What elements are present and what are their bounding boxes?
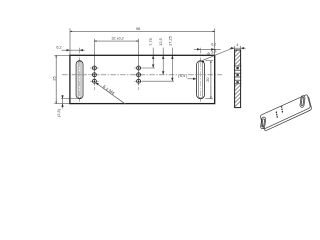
dimension 7,75 <box>148 37 154 68</box>
section strip hatch bottom <box>231 77 245 111</box>
slot right inner <box>199 61 203 98</box>
svg-text:6,2: 6,2 <box>211 42 216 46</box>
svg-text:12,5: 12,5 <box>158 37 163 46</box>
hole M4 c2r3 <box>137 79 141 83</box>
wire extension line right top corner up <box>214 28 216 55</box>
dimension (2,5) <box>56 95 64 117</box>
wire extension line hole column left <box>93 39 95 86</box>
centerline segments over slots <box>80 62 201 99</box>
dimension 6,2 right <box>194 42 221 50</box>
wire extension 25 bottom <box>54 103 70 105</box>
hole M4 c1r3 <box>92 79 96 83</box>
3d holes group 1 <box>276 111 278 118</box>
dimension 12,5 <box>158 37 164 74</box>
svg-text:17,25: 17,25 <box>167 35 172 46</box>
leader 6 x M4 <box>95 83 125 105</box>
centerline horizontal main <box>62 74 222 76</box>
3d slot left <box>260 117 266 129</box>
hole M4 c2r2 <box>137 73 141 77</box>
hole M4 c1r2 <box>92 73 96 77</box>
slot right outer <box>197 61 205 99</box>
section strip extension lines <box>234 46 236 50</box>
centerline left slot <box>79 48 81 103</box>
wire extension slot bottom left <box>61 98 77 100</box>
dimension 17,25 <box>167 35 173 81</box>
3d view face <box>260 95 310 129</box>
svg-text:4: 4 <box>236 43 238 47</box>
svg-text:7,75: 7,75 <box>148 37 153 46</box>
wire row extension top <box>143 67 155 69</box>
svg-text:25: 25 <box>51 76 56 81</box>
3d view outer thickness outline <box>262 97 312 131</box>
svg-text:20: 20 <box>205 77 210 82</box>
wire row extension bottom <box>143 80 175 82</box>
dimension 6,2 left <box>56 45 84 51</box>
svg-text:(2,5): (2,5) <box>56 108 61 117</box>
dimension 32 +-0,2 <box>94 37 138 42</box>
wire extension slot bottom right <box>206 98 214 100</box>
section hole 3 <box>234 80 241 84</box>
hole center ticks <box>90 68 143 81</box>
svg-text:32 ±0,2: 32 ±0,2 <box>111 37 123 41</box>
hole M4 c1r1 <box>92 66 96 70</box>
slot left inner <box>78 61 81 98</box>
wire extension 25 top <box>54 54 70 56</box>
hole M4 c2r1 <box>137 66 141 70</box>
wire extension line hole column right <box>138 39 140 86</box>
section strip outline <box>235 50 241 108</box>
3d holes group 2 <box>281 106 283 113</box>
3d slot right <box>300 95 306 107</box>
section strip hatch top <box>231 43 245 73</box>
dimension 25 <box>51 55 56 103</box>
dimension 20 <box>205 61 211 99</box>
wire extension slot top right <box>206 60 214 62</box>
svg-text:6,2: 6,2 <box>56 45 61 49</box>
leader diameter 3,2 <box>201 48 232 63</box>
svg-text:6 x M4: 6 x M4 <box>102 84 116 96</box>
dimension (6,4) with leader <box>178 74 197 80</box>
centerline right slot <box>200 48 202 103</box>
section hole 2 <box>234 73 241 77</box>
wire extension line left top corner up <box>69 28 71 55</box>
slot left outer <box>76 61 83 99</box>
svg-text:98: 98 <box>136 27 140 31</box>
dimension 98 <box>70 27 215 31</box>
dimension 4 <box>230 43 246 49</box>
section hole 1 <box>234 66 241 70</box>
plate front view outline <box>70 55 215 103</box>
